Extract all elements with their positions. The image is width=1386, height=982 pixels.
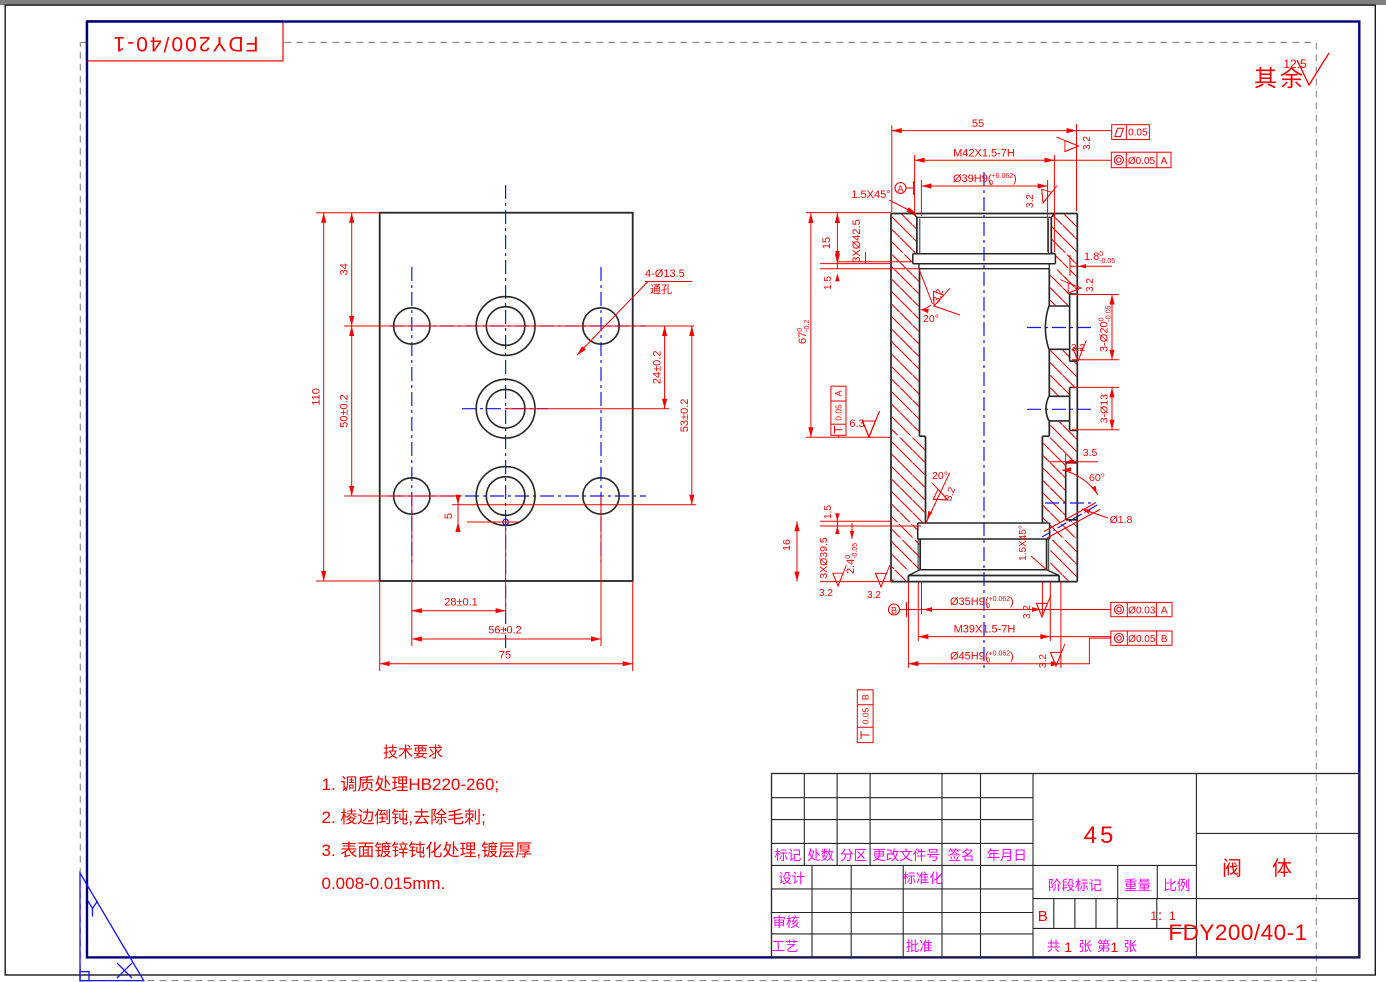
- svg-text:1: 1: [1064, 939, 1072, 955]
- thread relief groove top: [913, 254, 1056, 264]
- centerline row 2: [462, 408, 548, 410]
- ext verticals bottom: [907, 582, 909, 668]
- svg-text:3.2: 3.2: [819, 588, 833, 599]
- svg-text:3.2: 3.2: [1025, 194, 1036, 208]
- bottom boss face: [908, 576, 1059, 582]
- svg-text:年月日: 年月日: [986, 848, 1027, 863]
- svg-text:B: B: [891, 606, 897, 616]
- svg-text:15: 15: [821, 237, 833, 249]
- angle 20 upper: [919, 270, 932, 305]
- svg-text:20°: 20°: [932, 470, 948, 482]
- ext line bottom flange: [820, 581, 892, 583]
- left view plate outline: [380, 213, 633, 581]
- svg-text:Ø0.05: Ø0.05: [1128, 156, 1156, 167]
- port2 centerline: [1027, 408, 1095, 410]
- svg-text:阀: 阀: [1222, 857, 1242, 880]
- angle 20 lower: [926, 473, 950, 524]
- bottom chamfers: [908, 570, 1059, 576]
- leader 4-Ø13.5: [577, 282, 648, 356]
- counterbored hole top-center: [476, 297, 535, 356]
- dimension 16: [796, 521, 798, 581]
- dimension 50±0.2: [351, 326, 353, 496]
- hole top-left: [394, 308, 430, 344]
- concentricity frame Ø0.05 B: [1111, 631, 1172, 645]
- svg-text:处数: 处数: [807, 848, 834, 863]
- hole top-right: [583, 308, 619, 344]
- dimension 53±0.2: [691, 326, 693, 505]
- svg-text:设计: 设计: [778, 871, 805, 886]
- svg-text:阶段标记: 阶段标记: [1048, 878, 1102, 893]
- svg-text:Ø1.8: Ø1.8: [1110, 514, 1133, 526]
- svg-text:Ø0.03: Ø0.03: [1128, 606, 1156, 617]
- small thread hole marker: [503, 519, 509, 525]
- svg-text:53±0.2: 53±0.2: [679, 399, 691, 433]
- main bore walls: [919, 269, 921, 437]
- bore shoulder: [920, 435, 1050, 437]
- svg-text:4-Ø13.5: 4-Ø13.5: [645, 268, 685, 280]
- thread bore M39: [920, 539, 1046, 570]
- svg-text:A: A: [834, 390, 844, 396]
- title block grid: [772, 774, 1360, 958]
- svg-text:B: B: [1038, 908, 1048, 925]
- roughness 3.2 on ext line: [1056, 137, 1078, 151]
- svg-text:审核: 审核: [773, 915, 800, 930]
- angled hole centerline horizontal: [1045, 502, 1092, 504]
- dimension 5: [457, 497, 459, 530]
- thread bore M42: [913, 214, 1055, 218]
- svg-text:110: 110: [311, 388, 323, 406]
- port2 opening: [1070, 387, 1078, 430]
- svg-text:1.5: 1.5: [823, 276, 834, 290]
- centerline vertical right column: [600, 267, 602, 563]
- dimension 28±0.1: [412, 610, 506, 612]
- concentricity frame Ø0.05 A: [1111, 152, 1171, 168]
- svg-text:批准: 批准: [906, 939, 933, 954]
- dimension Ø45H9: [908, 663, 1061, 665]
- svg-text:第: 第: [1097, 938, 1111, 954]
- svg-text:1. 调质处理HB220-260;: 1. 调质处理HB220-260;: [322, 775, 500, 794]
- svg-text:0.008-0.015mm.: 0.008-0.015mm.: [322, 874, 446, 893]
- svg-text:FDY200/40-1: FDY200/40-1: [112, 32, 259, 55]
- svg-text:M39X1.5-7H: M39X1.5-7H: [954, 624, 1016, 636]
- dimension 55 and leader to flatness frame: [892, 130, 1112, 132]
- svg-text:3-Ø13: 3-Ø13: [1099, 394, 1111, 423]
- roughness 3.2 bottom-left a: [833, 565, 847, 586]
- svg-text:3XØ39.5: 3XØ39.5: [818, 537, 830, 579]
- ext line y=504.8: [452, 504, 696, 506]
- svg-text:3.2: 3.2: [867, 590, 881, 601]
- svg-text:更改文件号: 更改文件号: [872, 848, 940, 863]
- dimension 75: [380, 663, 633, 665]
- ext line top left: [806, 212, 891, 214]
- port1 opening: [1070, 294, 1078, 361]
- dimension M42X1.5-7H and leader to concentricity frame: [915, 159, 1112, 161]
- svg-text:张: 张: [1079, 939, 1093, 954]
- svg-text:技术要求: 技术要求: [383, 744, 443, 761]
- svg-text:B: B: [1161, 634, 1168, 645]
- roughness 3.2 upper taper: [929, 283, 950, 309]
- svg-text:0.05: 0.05: [834, 404, 844, 421]
- bottom ext verticals: [411, 496, 413, 646]
- svg-text:通孔: 通孔: [650, 283, 672, 296]
- dimension 34: [351, 213, 353, 326]
- svg-text:A: A: [1161, 156, 1168, 167]
- dimension Ø35H9 and leader to frame: [900, 609, 1111, 611]
- svg-text:3. 表面镀锌钝化处理,镀层厚: 3. 表面镀锌钝化处理,镀层厚: [322, 841, 533, 860]
- svg-text:张: 张: [1123, 939, 1137, 954]
- section outline: [890, 214, 892, 582]
- centerline vertical left column: [411, 267, 413, 563]
- notch for angled hole: [1066, 463, 1078, 520]
- angle 60: [1062, 470, 1098, 495]
- datum B circle: [889, 604, 900, 615]
- svg-text:20°: 20°: [923, 313, 939, 325]
- dimension 1.5 top: [836, 264, 838, 269]
- svg-text:60°: 60°: [1089, 472, 1105, 484]
- ext lines 1.5 bottom: [820, 520, 892, 522]
- svg-text:3.2: 3.2: [1085, 278, 1096, 292]
- section hatch right wall: [1052, 214, 1076, 252]
- svg-text:工艺: 工艺: [772, 939, 799, 954]
- dimension 24±0.2: [664, 326, 666, 409]
- roughness 3.2 bottom-left b: [875, 565, 889, 587]
- svg-text:3.2: 3.2: [1082, 136, 1093, 150]
- ext line row1: [344, 325, 694, 327]
- svg-text:34: 34: [339, 263, 351, 275]
- ext line y=437.2: [806, 436, 891, 438]
- flatness frame 0.05: [1112, 125, 1150, 140]
- centerline vertical center column: [505, 185, 507, 648]
- ext verticals Ø39 dim: [920, 180, 922, 216]
- svg-text:1.5X45°: 1.5X45°: [1018, 525, 1029, 561]
- leader Ø45 to frame B: [1061, 638, 1111, 664]
- svg-text:1: 1: [1111, 939, 1119, 955]
- datum frame A vertical: [831, 386, 846, 435]
- svg-text:12.5: 12.5: [1283, 57, 1307, 71]
- centerline row 3: [390, 495, 646, 497]
- top-left part number box: [87, 22, 283, 61]
- dimension 110: [323, 213, 325, 581]
- svg-text:3.2: 3.2: [1022, 605, 1033, 619]
- svg-text:A: A: [897, 184, 903, 194]
- concentricity frame Ø0.03 A: [1111, 602, 1172, 616]
- svg-text:6.3: 6.3: [849, 418, 864, 430]
- corner triangle mark: [80, 873, 144, 981]
- svg-text:16: 16: [781, 539, 793, 551]
- section centerline vertical: [983, 172, 985, 668]
- port1 centerline: [1027, 327, 1095, 329]
- dimension 67 -0.2: [810, 213, 812, 437]
- svg-text:FDY200/40-1: FDY200/40-1: [1168, 920, 1307, 945]
- ext line plate top: [316, 212, 380, 214]
- svg-text:55: 55: [972, 118, 984, 130]
- svg-text:3.5: 3.5: [1083, 447, 1098, 459]
- angled hole Ø1.8 outline: [1047, 510, 1100, 539]
- svg-text:标准化: 标准化: [902, 871, 943, 886]
- svg-text:75: 75: [499, 650, 511, 662]
- hole bottom-left: [394, 478, 430, 514]
- dimension 3-Ø13: [1111, 387, 1113, 429]
- svg-text:共: 共: [1047, 939, 1061, 954]
- counterbored hole bottom-center: [476, 467, 535, 526]
- counterbored hole mid-center: [476, 379, 535, 438]
- svg-text:0.05: 0.05: [1128, 128, 1148, 139]
- ext lines 3-Ø13: [1072, 386, 1119, 388]
- dimension 56±0.2: [412, 638, 601, 640]
- svg-text:56±0.2: 56±0.2: [488, 625, 522, 637]
- ext line small hole y=522: [467, 521, 518, 523]
- svg-text:体: 体: [1272, 857, 1292, 880]
- dimension 15: [836, 213, 838, 264]
- hole bottom-right: [583, 478, 619, 514]
- svg-text:3.2: 3.2: [1038, 654, 1049, 668]
- dimension 1.5 bottom: [836, 516, 838, 532]
- svg-text:A: A: [1161, 606, 1168, 617]
- svg-text:1.5X45°: 1.5X45°: [851, 189, 890, 201]
- svg-text:28±0.1: 28±0.1: [444, 597, 478, 609]
- svg-text:标记: 标记: [774, 848, 801, 863]
- ext line row2: [506, 408, 669, 410]
- section hatch left wall: [892, 214, 1076, 580]
- svg-text:3XØ42.5: 3XØ42.5: [851, 219, 863, 262]
- svg-text:比例: 比例: [1163, 878, 1190, 893]
- svg-text:签名: 签名: [948, 847, 975, 863]
- dimension M39X1.5-7H and leader to frame: [918, 636, 1111, 638]
- dimension 3-Ø20 -0.05: [1111, 295, 1113, 360]
- lower bore walls: [926, 436, 1043, 523]
- svg-text:M42X1.5-7H: M42X1.5-7H: [953, 147, 1015, 159]
- ext line row3: [344, 495, 462, 497]
- ext lines 3-Ø20: [1072, 294, 1119, 296]
- svg-text:24±0.2: 24±0.2: [652, 351, 664, 385]
- datum frame B vertical: [857, 690, 873, 743]
- window top grey strip: [0, 0, 1386, 5]
- ext lines 1.5 top: [820, 263, 892, 265]
- svg-text:2. 棱边倒钝,去除毛刺;: 2. 棱边倒钝,去除毛刺;: [322, 808, 486, 827]
- centerline row 1: [390, 325, 646, 327]
- svg-text:B: B: [860, 694, 870, 700]
- ext verticals M42 dim: [914, 155, 916, 216]
- svg-text:分区: 分区: [840, 848, 867, 863]
- datum A circle: [895, 183, 906, 194]
- svg-text:重量: 重量: [1124, 878, 1151, 893]
- svg-text:0.05: 0.05: [860, 707, 870, 724]
- roughness 3.2 lower taper: [926, 483, 952, 505]
- dimension Ø39H9: [921, 185, 1047, 187]
- svg-text:50±0.2: 50±0.2: [339, 394, 351, 428]
- roughness 3.2 at 1.8 groove: [1060, 280, 1081, 294]
- svg-text:45: 45: [1084, 822, 1117, 849]
- svg-text:5: 5: [443, 513, 455, 519]
- ext verticals 55 dim: [891, 126, 893, 213]
- svg-text:1.5: 1.5: [823, 505, 834, 519]
- bottom relief groove: [918, 523, 1050, 539]
- ext line plate bottom: [316, 580, 380, 582]
- svg-text:Ø0.05: Ø0.05: [1128, 634, 1156, 645]
- angled hole centerline slanted: [1042, 505, 1098, 538]
